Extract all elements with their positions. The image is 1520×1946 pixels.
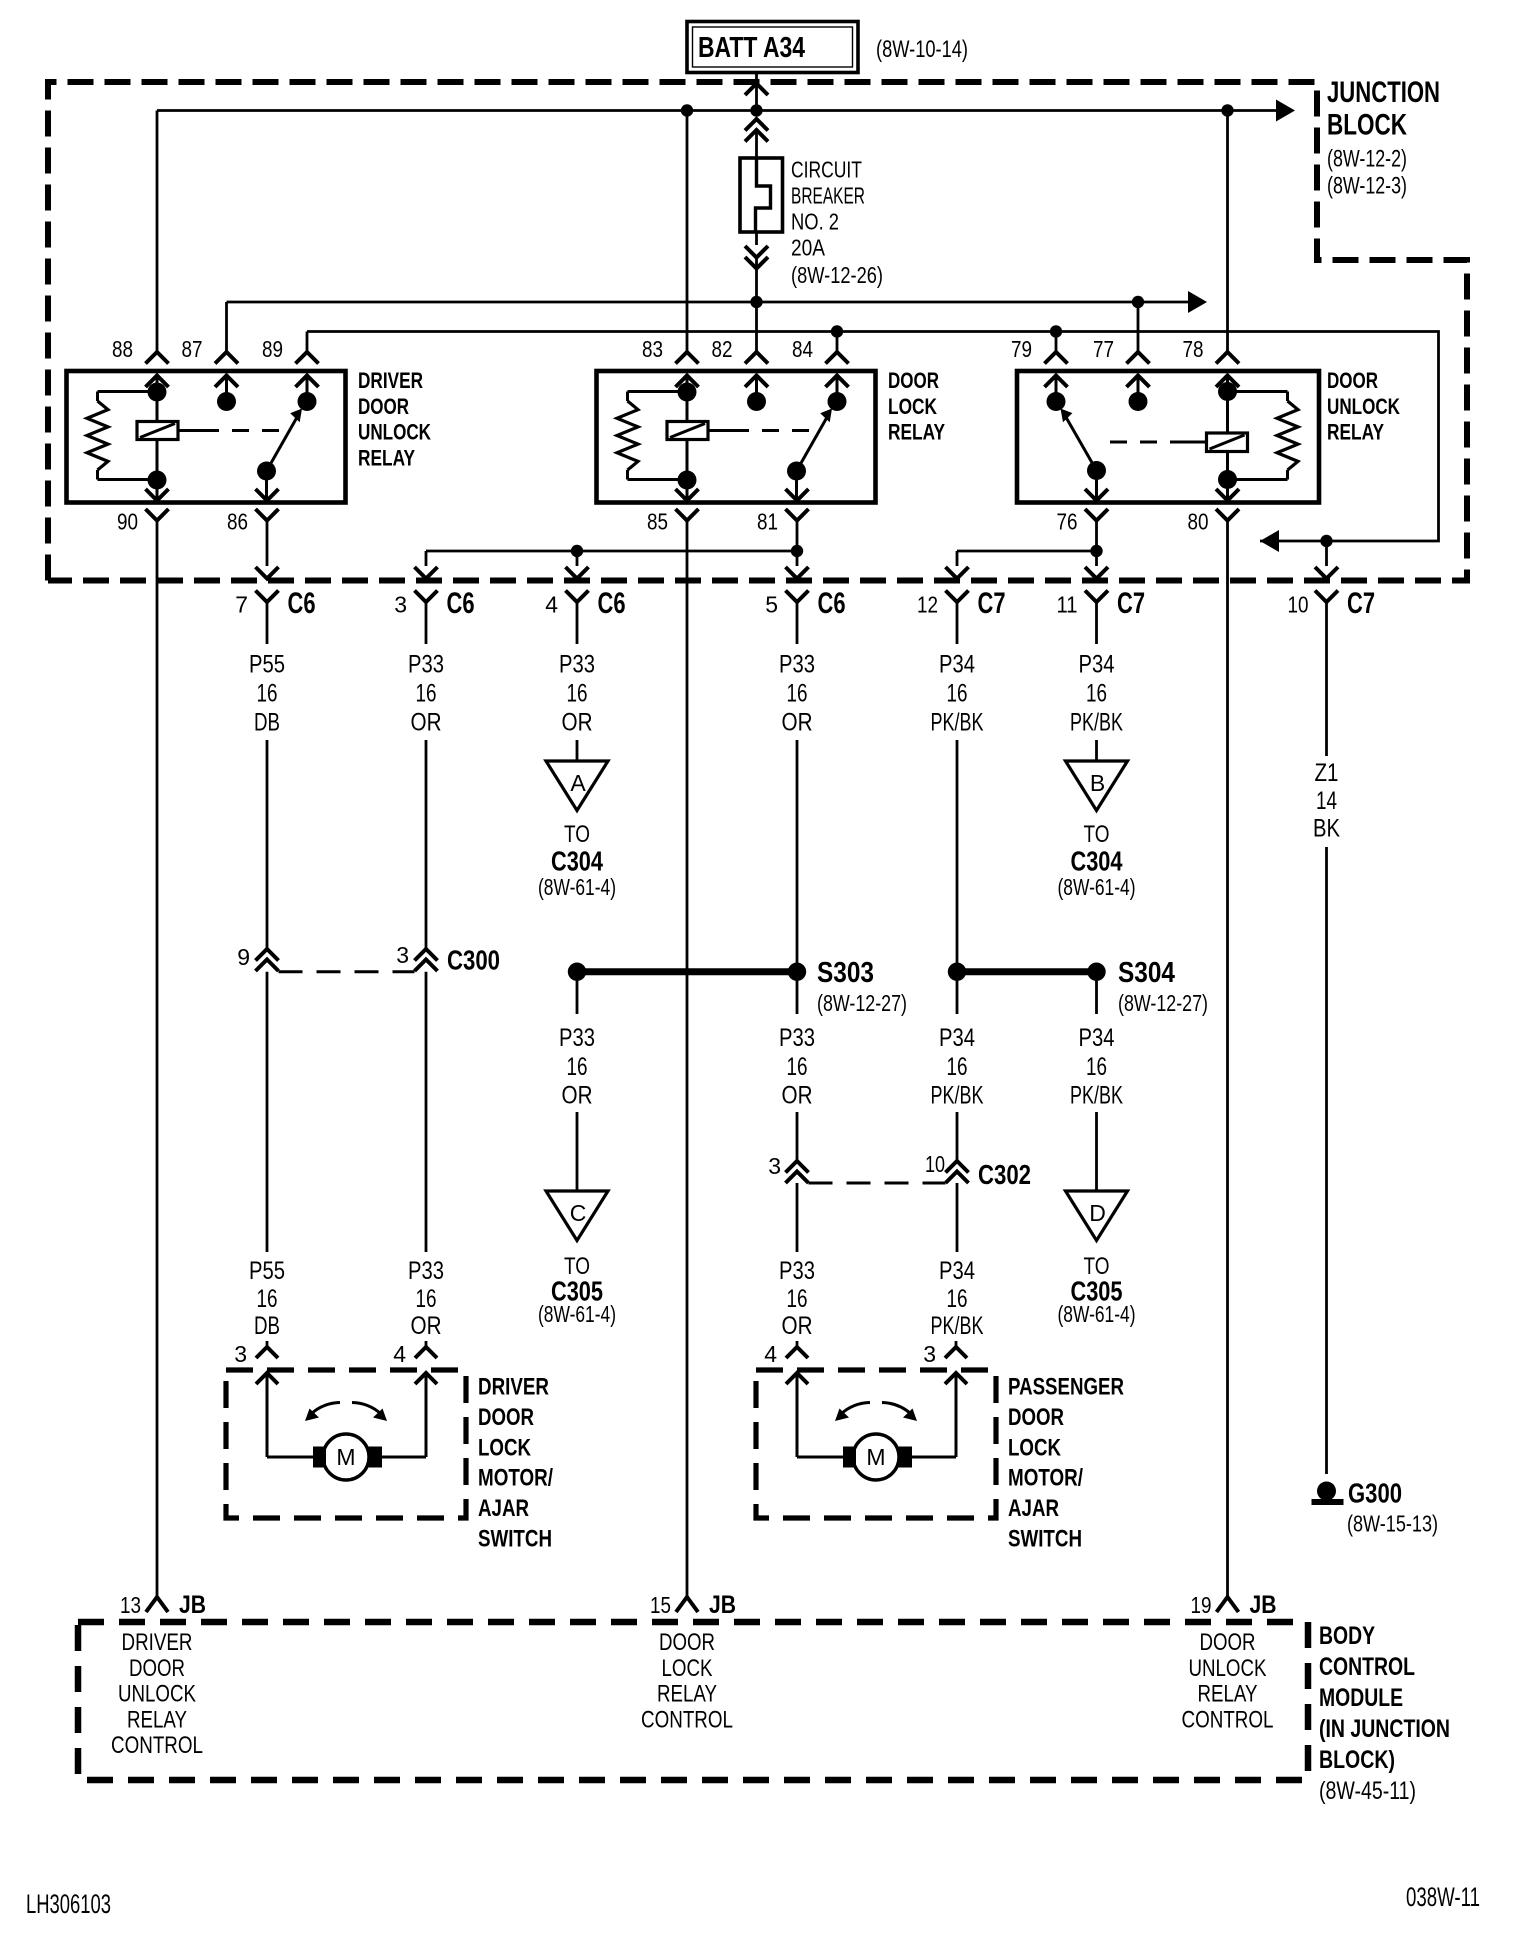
svg-text:12: 12 (917, 592, 938, 618)
svg-text:81: 81 (757, 509, 778, 535)
svg-text:16: 16 (947, 1053, 968, 1081)
svg-text:JB: JB (1250, 1591, 1277, 1619)
wire: S303 branch to triangle C (576, 1112, 579, 1191)
svg-text:88: 88 (112, 336, 133, 362)
connector arrow at junction block border (BATT feed) (745, 84, 768, 96)
svg-text:JUNCTION: JUNCTION (1327, 76, 1440, 109)
svg-text:4: 4 (393, 1341, 406, 1367)
connector chevrons below battery bus dot (745, 119, 768, 131)
svg-text:PK/BK: PK/BK (931, 1312, 984, 1340)
junction dot wire C at pin 84 column (831, 325, 843, 337)
svg-text:P33: P33 (408, 1257, 444, 1285)
junction dot wire B at pin 82 column (750, 296, 762, 308)
svg-text:DOOR: DOOR (659, 1629, 715, 1656)
wire: S304 branch to triangle D (1095, 1112, 1098, 1191)
relay coil symbol (667, 422, 708, 440)
svg-text:S303: S303 (817, 957, 874, 989)
wire: Z1 ground wire to G300 (1325, 847, 1328, 1474)
svg-text:16: 16 (416, 1285, 437, 1313)
svg-text:16: 16 (1086, 1053, 1107, 1081)
BCM pin 19 JB connector (1217, 1597, 1239, 1612)
svg-text:LOCK: LOCK (888, 394, 937, 419)
svg-text:(8W-12-3): (8W-12-3) (1327, 173, 1407, 200)
svg-text:C304: C304 (1071, 846, 1123, 877)
svg-text:9: 9 (237, 944, 250, 970)
svg-text:C7: C7 (1117, 587, 1145, 620)
svg-text:BREAKER: BREAKER (791, 183, 865, 209)
wire: pin 88 drop from battery bus (156, 111, 159, 353)
motor connector pin 4 (796, 1341, 799, 1347)
svg-text:UNLOCK: UNLOCK (118, 1681, 196, 1708)
svg-text:84: 84 (792, 336, 813, 362)
svg-text:80: 80 (1188, 509, 1209, 535)
relay pin 84 connector (826, 352, 849, 364)
svg-text:4: 4 (545, 592, 558, 618)
svg-text:BLOCK): BLOCK) (1319, 1746, 1395, 1774)
motor brush left (313, 1447, 326, 1468)
svg-text:A: A (570, 770, 586, 796)
relay coil wire (686, 376, 689, 480)
junction dot wire B at pin 77 column (1132, 296, 1144, 308)
svg-text:P33: P33 (559, 651, 595, 679)
relay switch pin 77 stub dot (1129, 392, 1148, 411)
connector 11 C7 at junction block border (1095, 521, 1098, 567)
connector 5 C6 at junction block border (796, 521, 799, 567)
svg-text:AJAR: AJAR (1008, 1495, 1059, 1522)
svg-text:SWITCH: SWITCH (1008, 1526, 1082, 1553)
svg-text:16: 16 (947, 1285, 968, 1313)
svg-text:C6: C6 (818, 587, 846, 620)
svg-text:(IN JUNCTION: (IN JUNCTION (1319, 1715, 1450, 1743)
relay coil top junction dot (1218, 382, 1237, 401)
svg-text:DOOR: DOOR (1200, 1629, 1256, 1656)
wire: pin 77 drop from wire B (1137, 302, 1140, 352)
splice dot S303 right (788, 963, 806, 981)
svg-text:C6: C6 (447, 587, 475, 620)
svg-text:BATT A34: BATT A34 (698, 32, 805, 64)
wire: S303 stub to label (576, 972, 579, 1014)
motor M (323, 1434, 369, 1480)
svg-text:CONTROL: CONTROL (641, 1706, 733, 1733)
circuit breaker no.2 body (740, 158, 783, 232)
svg-text:15: 15 (650, 1592, 671, 1618)
svg-text:LOCK: LOCK (478, 1434, 532, 1461)
svg-text:RELAY: RELAY (358, 445, 415, 470)
svg-text:90: 90 (117, 509, 138, 535)
connector C302 pin 3 (786, 1161, 809, 1173)
svg-text:3: 3 (768, 1153, 781, 1179)
relay switch movable contact (787, 462, 806, 481)
wire: relay K3 pin 76 branch to 12 C7 (957, 550, 1097, 553)
svg-text:16: 16 (567, 680, 588, 708)
motor lead left (256, 1373, 278, 1384)
connector 12 C7 at junction block border (946, 567, 969, 579)
svg-text:LOCK: LOCK (1008, 1434, 1062, 1461)
svg-text:P33: P33 (559, 1024, 595, 1052)
battery feed BATT A34 box (687, 22, 858, 73)
wire: C300 pin 9 to driver motor pin 3 (266, 972, 269, 1252)
svg-text:NO. 2: NO. 2 (791, 209, 839, 235)
wire: relay K3 pin 80 to BCM pin 19 (1226, 521, 1229, 1598)
svg-text:(8W-15-13): (8W-15-13) (1347, 1511, 1438, 1537)
svg-text:BLOCK: BLOCK (1327, 109, 1407, 142)
svg-text:P33: P33 (408, 651, 444, 679)
svg-text:RELAY: RELAY (1327, 420, 1384, 445)
arrowhead right (off-page) (1188, 291, 1207, 313)
svg-text:OR: OR (782, 709, 813, 737)
motor connector pin 3 (955, 1341, 958, 1347)
off-page connector triangle A (546, 761, 608, 811)
motor brush right (369, 1447, 383, 1468)
svg-text:77: 77 (1093, 336, 1114, 362)
svg-text:D: D (1089, 1200, 1106, 1226)
junction block boundary (dashed) (48, 82, 1467, 581)
svg-text:G300: G300 (1348, 1478, 1402, 1509)
junction dot wire C at pin 79 column (1050, 325, 1062, 337)
svg-text:16: 16 (787, 1053, 808, 1081)
connector chevrons below circuit breaker (745, 246, 768, 258)
svg-text:DB: DB (254, 709, 280, 737)
motor lead right (945, 1373, 967, 1384)
relay pin 78 connector (1216, 352, 1239, 364)
svg-text:CONTROL: CONTROL (1182, 1706, 1274, 1733)
relay coil bottom junction dot (678, 471, 697, 490)
svg-text:C6: C6 (288, 587, 316, 620)
svg-text:OR: OR (411, 709, 442, 737)
svg-text:PK/BK: PK/BK (1070, 709, 1123, 737)
off-page connector triangle D (1066, 1191, 1128, 1241)
svg-text:038W-11: 038W-11 (1406, 1882, 1480, 1912)
svg-text:DOOR: DOOR (1327, 368, 1378, 393)
motor M (853, 1434, 899, 1480)
svg-text:83: 83 (642, 336, 663, 362)
svg-text:RELAY: RELAY (127, 1706, 187, 1733)
motor brush left (843, 1447, 856, 1468)
circuit breaker element (756, 158, 771, 232)
junction dot at pin 78 column (1221, 104, 1233, 116)
wire below circuit breaker (755, 232, 758, 245)
svg-text:(8W-45-11): (8W-45-11) (1319, 1777, 1416, 1805)
svg-text:16: 16 (787, 680, 808, 708)
relay pin 90 connector (146, 489, 169, 501)
svg-text:DRIVER: DRIVER (358, 368, 423, 393)
relay pin 80 connector (1216, 489, 1239, 501)
svg-text:3: 3 (394, 592, 407, 618)
wire: 12 C7 net to C302 pin 10 (956, 1112, 959, 1162)
svg-text:C302: C302 (978, 1159, 1031, 1190)
svg-text:OR: OR (782, 1082, 813, 1110)
svg-text:P33: P33 (779, 651, 815, 679)
arrowhead right (off-page) (1276, 100, 1295, 122)
wire: 7 C6 to C300 pin 9 (266, 740, 269, 948)
relay box DRIVER (67, 371, 346, 503)
svg-text:P34: P34 (1079, 1024, 1115, 1052)
svg-text:DRIVER: DRIVER (478, 1374, 549, 1401)
relay coil bottom junction dot (148, 471, 167, 490)
svg-text:11: 11 (1057, 592, 1078, 618)
svg-text:16: 16 (257, 680, 278, 708)
body control module boundary (dashed) (78, 1622, 1308, 1780)
svg-text:86: 86 (227, 509, 248, 535)
svg-text:RELAY: RELAY (888, 420, 945, 445)
relay switch common dot (1047, 392, 1066, 411)
relay suppression resistor (1228, 390, 1288, 393)
relay coil top junction dot (148, 383, 167, 402)
svg-text:S304: S304 (1118, 957, 1175, 989)
relay actuation dashed link (1183, 441, 1207, 444)
svg-text:10: 10 (925, 1151, 945, 1177)
relay pin 86 connector (256, 489, 279, 501)
connector C302 pin 10 (946, 1161, 969, 1173)
wire: BATT A34 down through junction block border (755, 73, 758, 81)
motor assembly dashed box PASSENGER (756, 1370, 996, 1518)
motor rotation arrow right (352, 1403, 381, 1415)
wire: pin 89 drop from wire C (306, 332, 309, 353)
svg-text:CIRCUIT: CIRCUIT (791, 157, 862, 183)
svg-text:JB: JB (179, 1591, 206, 1619)
relay box DOOR (597, 371, 876, 503)
motor rotation arrow left (841, 1403, 870, 1415)
motor connector pin 4 (425, 1341, 428, 1347)
svg-text:79: 79 (1011, 336, 1032, 362)
relay coil wire (156, 376, 159, 480)
svg-text:P34: P34 (1079, 651, 1115, 679)
relay switch pin 87/82 stub dot (747, 392, 766, 411)
relay coil top junction dot (678, 383, 697, 402)
svg-text:P33: P33 (779, 1257, 815, 1285)
motor assembly dashed box DRIVER (226, 1370, 466, 1518)
junction dot at circuit breaker column (750, 104, 762, 116)
relay pin 82 connector (745, 352, 768, 364)
svg-text:16: 16 (416, 680, 437, 708)
BCM pin 15 JB connector (676, 1597, 698, 1612)
wire: C300 pin 3 to driver motor pin 4 (425, 972, 428, 1252)
svg-text:(8W-12-27): (8W-12-27) (1118, 990, 1208, 1016)
wire: pin 87 drop from wire B (225, 302, 228, 352)
svg-text:PK/BK: PK/BK (1070, 1082, 1123, 1110)
svg-text:LOCK: LOCK (662, 1655, 713, 1682)
svg-text:CONTROL: CONTROL (1319, 1653, 1415, 1681)
BCM pin 13 JB connector (146, 1597, 168, 1612)
splice S304 bus (957, 968, 1097, 975)
svg-text:OR: OR (562, 709, 593, 737)
relay actuation dashed link (708, 429, 732, 432)
svg-text:(8W-10-14): (8W-10-14) (876, 36, 968, 63)
svg-text:C7: C7 (978, 587, 1006, 620)
svg-text:(8W-12-26): (8W-12-26) (791, 262, 883, 288)
svg-text:RELAY: RELAY (657, 1681, 717, 1708)
svg-text:MODULE: MODULE (1319, 1684, 1403, 1712)
svg-text:P55: P55 (249, 651, 285, 679)
svg-text:(8W-61-4): (8W-61-4) (1058, 874, 1136, 900)
svg-text:76: 76 (1057, 509, 1078, 535)
wire: pin 84 drop from wire C (836, 332, 839, 353)
svg-text:14: 14 (1316, 787, 1337, 815)
svg-text:UNLOCK: UNLOCK (1327, 394, 1400, 419)
svg-text:C300: C300 (447, 945, 500, 976)
wire: relay K1 pin 90 to BCM pin 13 (156, 521, 159, 1598)
svg-text:OR: OR (562, 1082, 593, 1110)
svg-text:P55: P55 (249, 1257, 285, 1285)
wire: pin 79 drop from wire C (1055, 332, 1058, 353)
relay pin 87 connector (215, 352, 238, 364)
wire: S304 stub down (956, 972, 959, 1014)
wire: 3 C6 to C300 pin 3 (425, 740, 428, 948)
relay pin 77 connector (1127, 352, 1150, 364)
motor rotation arrow right (882, 1403, 911, 1415)
svg-text:TO: TO (564, 821, 590, 848)
junction dot at 4 C6 column (571, 545, 583, 557)
svg-text:(8W-61-4): (8W-61-4) (538, 874, 616, 900)
svg-text:19: 19 (1191, 1592, 1212, 1618)
relay actuation dashed link (178, 429, 202, 432)
svg-text:16: 16 (787, 1285, 808, 1313)
wire: 5 C6 to splice S303 (796, 740, 799, 972)
svg-text:UNLOCK: UNLOCK (1189, 1655, 1267, 1682)
splice dot S303 left (568, 963, 586, 981)
off-page connector triangle C (546, 1191, 608, 1241)
relay suppression resistor (98, 390, 158, 393)
svg-text:BK: BK (1313, 815, 1340, 843)
svg-text:AJAR: AJAR (478, 1495, 529, 1522)
svg-text:16: 16 (257, 1285, 278, 1313)
relay switch pin 87/82 stub dot (217, 392, 236, 411)
wire: relay K2 pin 85 to BCM pin 15 (686, 521, 689, 1598)
svg-text:DB: DB (254, 1312, 280, 1340)
relay pin 83 connector (676, 352, 699, 364)
svg-text:PK/BK: PK/BK (931, 709, 984, 737)
svg-text:(8W-61-4): (8W-61-4) (1058, 1301, 1136, 1327)
relay switch movable contact (257, 462, 276, 481)
arrowhead left (off-page) on lower return (1260, 530, 1279, 552)
connector 4 C6 at junction block border (576, 551, 579, 566)
junction dot at pin 81 column (791, 545, 803, 557)
svg-text:OR: OR (411, 1312, 442, 1340)
svg-text:20A: 20A (791, 235, 826, 261)
splice S303 bus (577, 968, 797, 975)
svg-text:C: C (570, 1200, 587, 1226)
svg-text:P34: P34 (939, 1024, 975, 1052)
wire: 12 C7 to splice S304 (956, 740, 959, 972)
svg-text:C7: C7 (1347, 587, 1375, 620)
svg-text:3: 3 (396, 942, 409, 968)
svg-text:C6: C6 (598, 587, 626, 620)
svg-text:M: M (866, 1444, 885, 1470)
wire: relay common bus pins 89/84/79 and down right side (307, 332, 1439, 542)
svg-text:3: 3 (923, 1341, 936, 1367)
wire: pin 81 net to C302 pin 3 (796, 1112, 799, 1162)
svg-text:16: 16 (567, 1053, 588, 1081)
connector C300 pin 3 (415, 949, 438, 961)
relay pin 89 connector (296, 352, 319, 364)
svg-text:RELAY: RELAY (1198, 1681, 1258, 1708)
relay coil symbol (137, 422, 178, 440)
svg-text:DRIVER: DRIVER (122, 1629, 193, 1656)
svg-text:DOOR: DOOR (1008, 1404, 1064, 1431)
relay switch common dot (298, 392, 317, 411)
svg-text:P34: P34 (939, 1257, 975, 1285)
wire: relay K2 pin 81 distribution bus (426, 550, 797, 553)
connector 7 C6 at junction block border (266, 521, 269, 567)
motor lead right (415, 1373, 437, 1384)
relay coil bottom junction dot (1218, 470, 1237, 489)
svg-text:TO: TO (1084, 821, 1110, 848)
relay pin 76 connector (1085, 489, 1108, 501)
relay pin 81 connector (786, 489, 809, 501)
svg-text:DOOR: DOOR (358, 394, 409, 419)
svg-text:3: 3 (234, 1341, 247, 1367)
svg-text:C304: C304 (551, 846, 603, 877)
relay pin 85 connector (676, 489, 699, 501)
splice dot S304 left (948, 963, 966, 981)
svg-text:JB: JB (709, 1591, 736, 1619)
relay coil symbol (1207, 433, 1248, 452)
svg-text:10: 10 (1288, 592, 1309, 618)
wire: S303 through pin 81 column (796, 972, 799, 1014)
relay switch common dot (828, 392, 847, 411)
svg-text:7: 7 (235, 592, 248, 618)
connector 3 C6 at junction block border (415, 567, 438, 579)
relay pin 88 connector (146, 352, 169, 364)
relay box DOOR UNLOCK RELAY (1017, 371, 1319, 503)
svg-text:UNLOCK: UNLOCK (358, 420, 431, 445)
wire: battery bus from pin 88 column across top (157, 109, 1278, 112)
junction dot at pin 83 column (681, 104, 693, 116)
ground G300 (1317, 1482, 1336, 1501)
wire: 11 C7 to off-page triangle B (1095, 740, 1098, 760)
motor lead left (786, 1373, 808, 1384)
motor rotation arrow left (311, 1403, 340, 1415)
svg-text:85: 85 (647, 509, 668, 535)
svg-text:B: B (1090, 770, 1105, 796)
svg-text:LH306103: LH306103 (26, 1889, 111, 1919)
svg-text:(8W-61-4): (8W-61-4) (538, 1301, 616, 1327)
svg-text:4: 4 (764, 1341, 777, 1367)
off-page connector triangle B (1066, 761, 1128, 811)
svg-text:OR: OR (782, 1312, 813, 1340)
svg-text:M: M (336, 1444, 355, 1470)
svg-text:87: 87 (182, 336, 203, 362)
svg-text:BODY: BODY (1319, 1622, 1375, 1650)
connector 10 C7 at junction block border (1325, 541, 1328, 566)
svg-text:DOOR: DOOR (129, 1655, 185, 1682)
motor connector pin 3 (266, 1341, 269, 1347)
wire: C302 pin 3 to passenger motor pin 4 (796, 1183, 799, 1252)
junction dot at pin 76 column (1090, 545, 1102, 557)
svg-text:16: 16 (947, 680, 968, 708)
svg-text:16: 16 (1086, 680, 1107, 708)
relay pin 79 connector (1045, 352, 1068, 364)
svg-text:78: 78 (1183, 336, 1204, 362)
svg-text:DOOR: DOOR (478, 1404, 534, 1431)
svg-text:PASSENGER: PASSENGER (1008, 1374, 1124, 1401)
svg-text:(8W-12-2): (8W-12-2) (1327, 146, 1407, 173)
svg-text:P34: P34 (939, 651, 975, 679)
svg-text:13: 13 (120, 1592, 141, 1618)
svg-text:5: 5 (765, 592, 778, 618)
wire: pin 83 drop from battery bus (686, 111, 689, 353)
relay suppression resistor (628, 390, 688, 393)
svg-text:MOTOR/: MOTOR/ (478, 1465, 553, 1492)
svg-text:82: 82 (712, 336, 733, 362)
junction dot to 10 C7 drop (1320, 535, 1332, 547)
wire: pin 78 drop from battery bus (1226, 111, 1229, 353)
connector C300 mating dashed line (279, 970, 415, 973)
svg-text:(8W-12-27): (8W-12-27) (817, 990, 907, 1016)
wire: 4 C6 to off-page triangle A (576, 740, 579, 760)
relay coil wire (1226, 376, 1229, 480)
motor brush right (899, 1447, 913, 1468)
